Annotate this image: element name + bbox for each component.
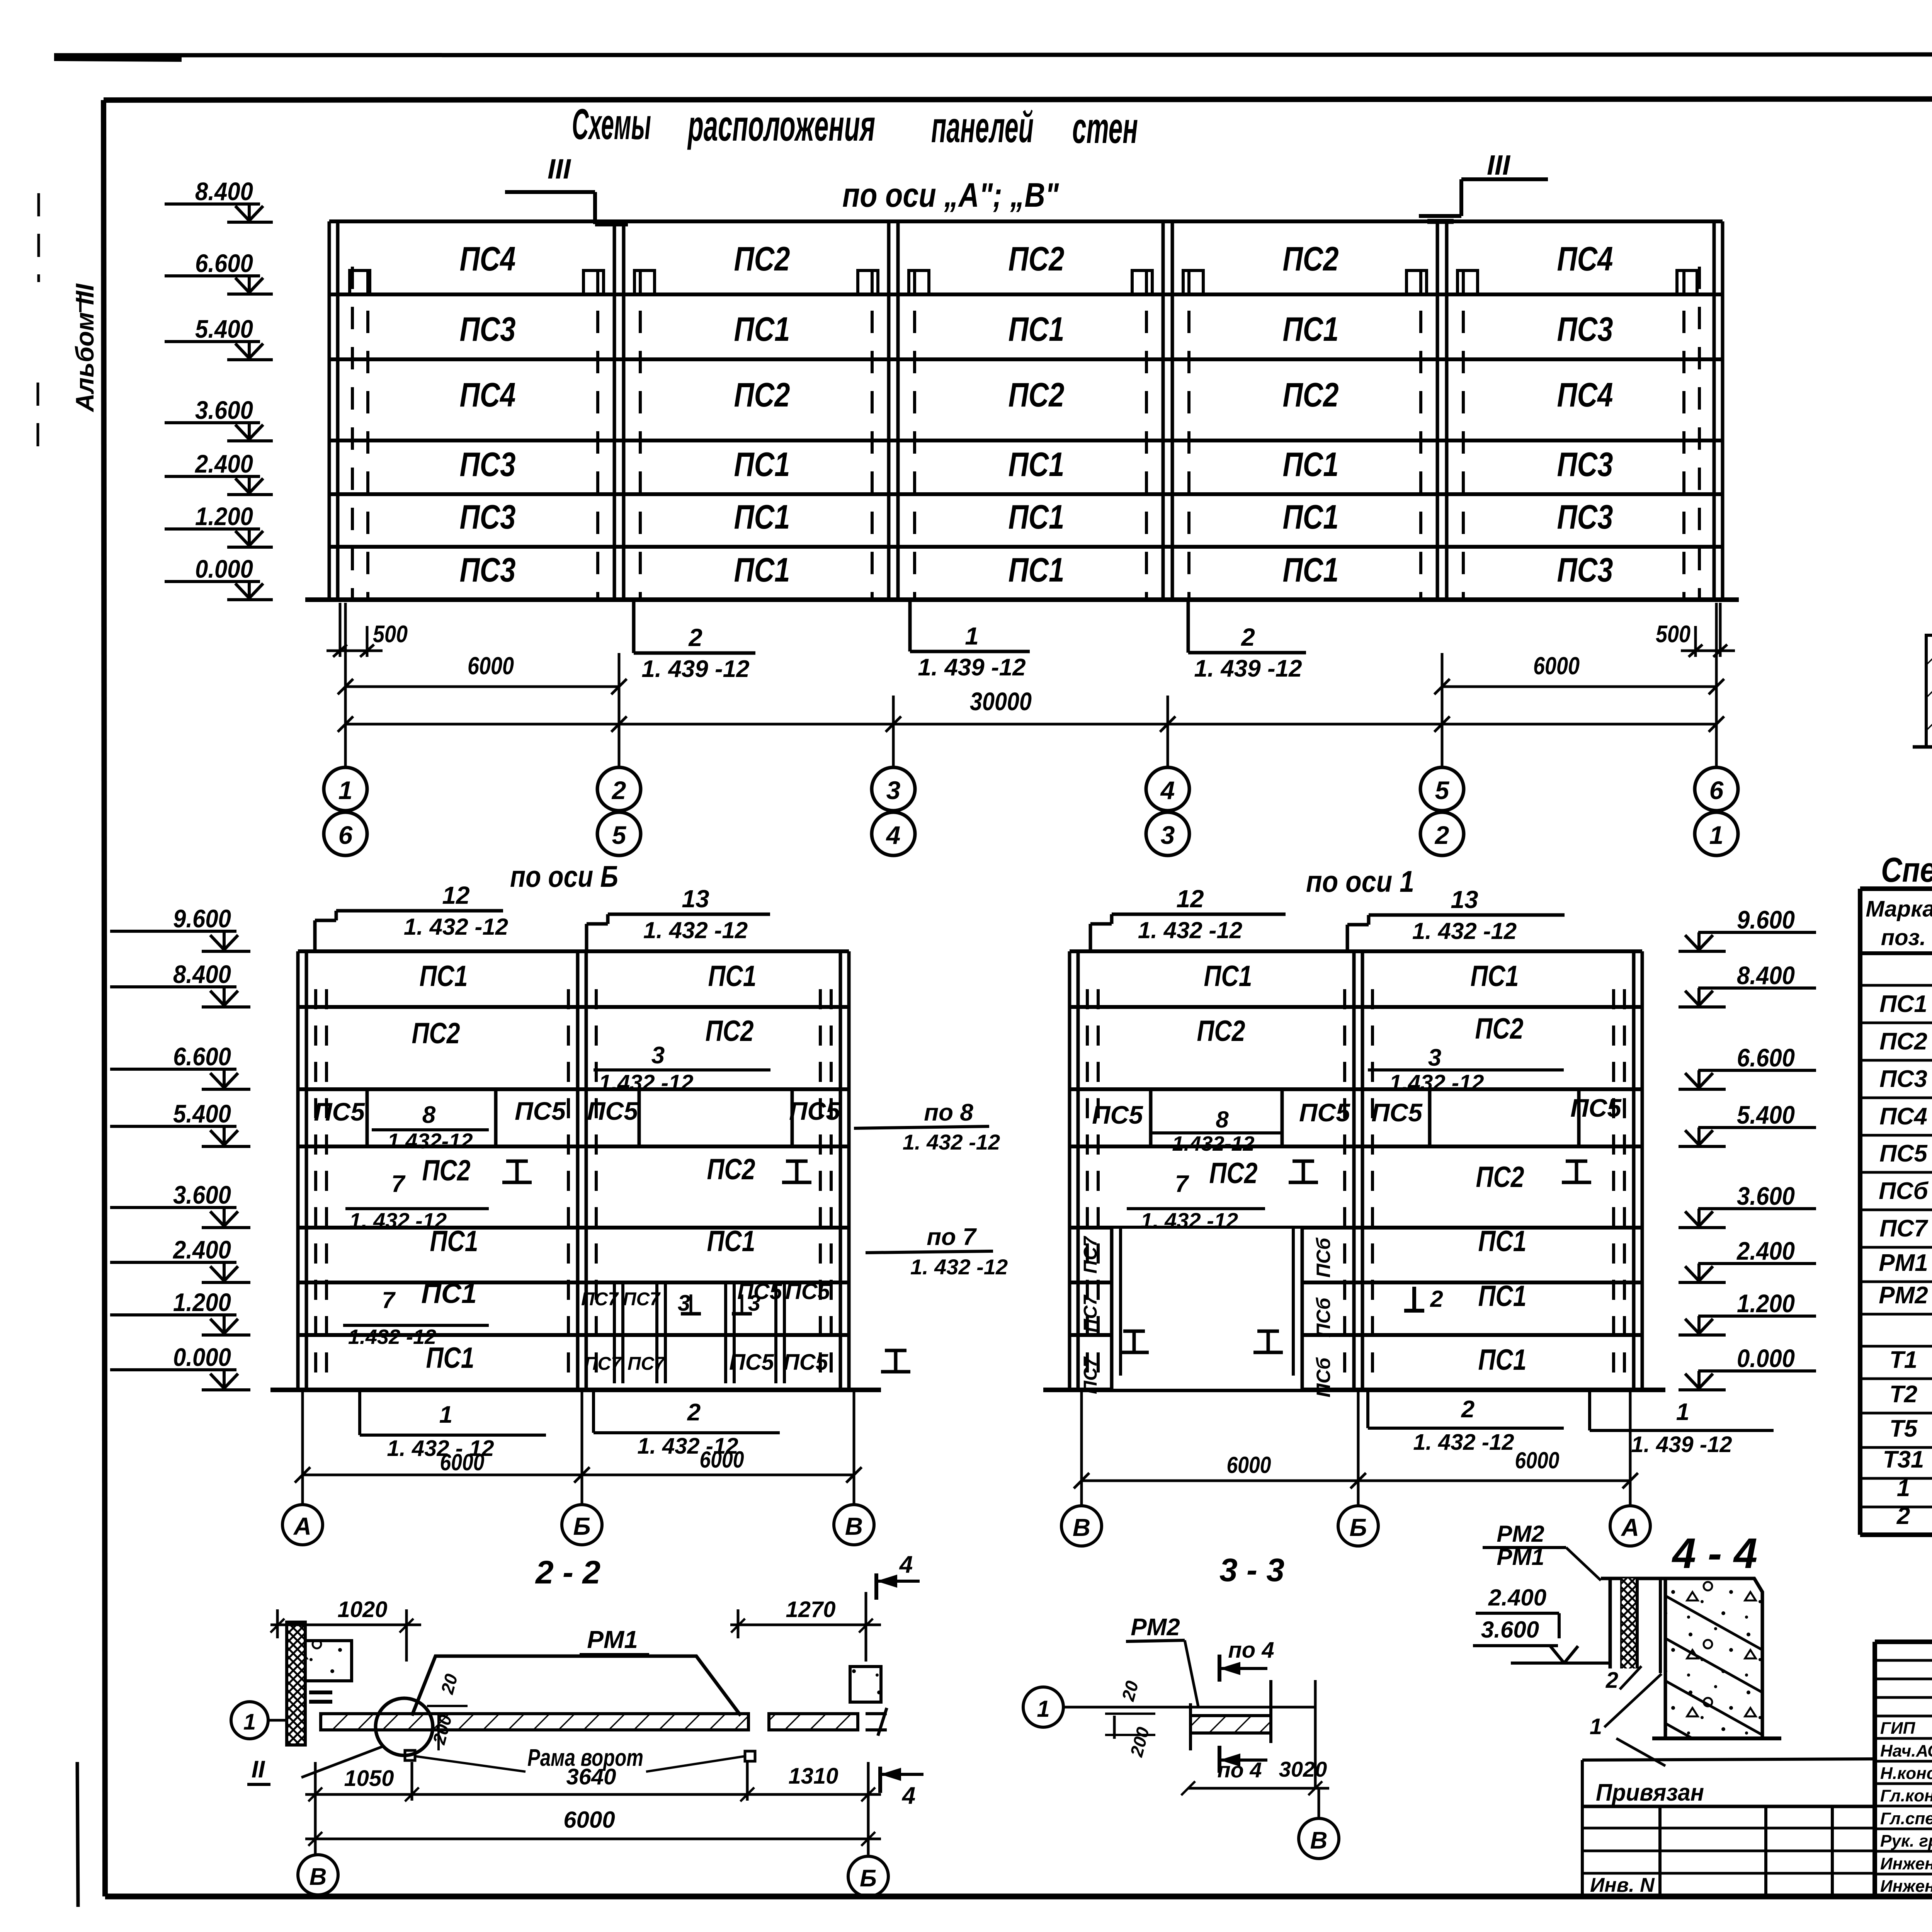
svg-text:2 - 2: 2 - 2 (535, 1554, 600, 1590)
svg-text:Б: Б (573, 1512, 590, 1540)
svg-text:1.200: 1.200 (1737, 1289, 1795, 1318)
svg-text:ПС5: ПС5 (1299, 1098, 1350, 1127)
svg-text:500: 500 (1656, 621, 1690, 648)
svg-text:3 - 3: 3 - 3 (1219, 1552, 1284, 1588)
svg-text:8: 8 (422, 1102, 436, 1128)
svg-text:6000: 6000 (468, 652, 514, 680)
svg-text:А: А (1621, 1514, 1639, 1541)
svg-text:3020: 3020 (1279, 1757, 1327, 1781)
svg-text:ПС1: ПС1 (1009, 551, 1065, 589)
svg-text:ПС2: ПС2 (1475, 1012, 1524, 1045)
svg-text:Альбом III: Альбом III (70, 283, 99, 413)
svg-text:ПС3: ПС3 (1557, 310, 1613, 348)
svg-text:3640: 3640 (566, 1764, 616, 1789)
svg-text:1: 1 (1897, 1475, 1910, 1502)
svg-text:500: 500 (373, 621, 408, 648)
svg-text:5: 5 (612, 821, 627, 849)
svg-text:Гл.констр: Гл.констр (1880, 1786, 1932, 1805)
svg-text:6.600: 6.600 (1737, 1043, 1795, 1072)
svg-text:ПС3: ПС3 (460, 445, 516, 483)
svg-text:ПС4: ПС4 (460, 376, 516, 414)
svg-text:3.600: 3.600 (1737, 1182, 1795, 1210)
svg-text:5: 5 (1435, 776, 1450, 804)
svg-text:В: В (310, 1864, 327, 1890)
svg-text:ПС1: ПС1 (421, 1278, 477, 1309)
svg-text:ПС2: ПС2 (1283, 240, 1339, 278)
svg-text:3: 3 (678, 1291, 690, 1316)
svg-text:ПС1: ПС1 (1471, 960, 1519, 993)
svg-text:2: 2 (1430, 1286, 1443, 1312)
svg-text:4: 4 (901, 1782, 915, 1809)
svg-text:1.200: 1.200 (195, 502, 253, 531)
svg-text:ПС1: ПС1 (1879, 991, 1927, 1017)
svg-text:ПС1: ПС1 (1478, 1280, 1527, 1313)
svg-text:Т2: Т2 (1889, 1381, 1917, 1408)
svg-text:2.400: 2.400 (194, 449, 253, 478)
svg-text:В: В (1073, 1514, 1090, 1541)
svg-text:по 4: по 4 (1228, 1638, 1274, 1663)
svg-text:5.400: 5.400 (173, 1099, 231, 1128)
svg-text:ПС2: ПС2 (1879, 1028, 1927, 1055)
svg-text:ПСб: ПСб (1313, 1357, 1334, 1397)
svg-text:ПС5: ПС5 (515, 1097, 566, 1125)
svg-text:6000: 6000 (1533, 652, 1580, 680)
svg-text:2.400: 2.400 (172, 1235, 231, 1264)
svg-text:ПС4: ПС4 (1879, 1103, 1927, 1130)
svg-text:30000: 30000 (970, 687, 1032, 716)
svg-text:ПС1: ПС1 (1478, 1344, 1527, 1376)
svg-text:1: 1 (243, 1709, 256, 1735)
svg-text:1: 1 (965, 622, 979, 650)
svg-text:1270: 1270 (786, 1597, 835, 1622)
svg-text:ПС2: ПС2 (412, 1017, 460, 1050)
svg-text:1: 1 (1590, 1714, 1602, 1739)
svg-text:1.432 -12: 1.432 -12 (1389, 1070, 1484, 1095)
svg-text:ГИП: ГИП (1880, 1719, 1916, 1738)
svg-text:РМ2: РМ2 (1131, 1614, 1180, 1641)
svg-text:ПС1: ПС1 (1478, 1225, 1527, 1258)
svg-text:ПС1: ПС1 (1009, 445, 1065, 483)
svg-text:1310: 1310 (788, 1764, 838, 1789)
svg-text:ПС7: ПС7 (623, 1289, 661, 1310)
svg-text:ПС7: ПС7 (584, 1354, 622, 1374)
svg-text:III: III (548, 154, 571, 185)
svg-text:ПС5: ПС5 (785, 1279, 830, 1304)
svg-text:Н.констр.: Н.констр. (1880, 1764, 1932, 1783)
svg-text:ПС3: ПС3 (460, 551, 516, 589)
svg-text:8.400: 8.400 (173, 960, 231, 988)
svg-text:1. 432 -12: 1. 432 -12 (910, 1255, 1008, 1279)
svg-text:ПС7: ПС7 (1080, 1236, 1101, 1274)
svg-text:ПС2: ПС2 (1283, 376, 1339, 414)
svg-text:2.400: 2.400 (1736, 1236, 1795, 1265)
svg-text:ПС4: ПС4 (1557, 240, 1613, 278)
svg-text:РМ2: РМ2 (1879, 1282, 1928, 1309)
svg-text:ПСб: ПСб (1879, 1178, 1929, 1204)
svg-text:ПС7: ПС7 (1080, 1356, 1101, 1394)
svg-text:по оси 1: по оси 1 (1306, 864, 1414, 898)
svg-text:ПС3: ПС3 (460, 498, 516, 536)
svg-text:Нач.АСО: Нач.АСО (1880, 1742, 1932, 1760)
svg-text:2: 2 (1605, 1668, 1618, 1693)
svg-text:9.600: 9.600 (1737, 905, 1795, 934)
svg-text:ПС2: ПС2 (422, 1154, 471, 1187)
svg-text:ПС1: ПС1 (1009, 310, 1065, 348)
svg-text:ПС1: ПС1 (426, 1342, 474, 1374)
svg-text:ПС3: ПС3 (460, 310, 516, 348)
svg-text:РМ1: РМ1 (1879, 1250, 1928, 1276)
svg-text:2: 2 (687, 1399, 701, 1426)
svg-text:1050: 1050 (344, 1766, 394, 1791)
svg-text:ПС2: ПС2 (1009, 240, 1065, 278)
svg-text:8.400: 8.400 (1737, 961, 1795, 990)
svg-text:1020: 1020 (337, 1597, 387, 1622)
svg-text:ПС1: ПС1 (1283, 445, 1339, 483)
svg-text:ПСб: ПСб (1313, 1237, 1334, 1277)
svg-text:12: 12 (1176, 885, 1204, 913)
svg-text:1. 432 -12: 1. 432 -12 (1413, 1430, 1514, 1455)
svg-text:2: 2 (1434, 821, 1449, 849)
svg-text:8: 8 (1216, 1107, 1229, 1133)
svg-text:ПС5: ПС5 (587, 1097, 638, 1125)
svg-text:ПС1: ПС1 (420, 960, 468, 993)
svg-text:Рук. гр.: Рук. гр. (1880, 1832, 1932, 1850)
svg-text:ПС4: ПС4 (1557, 376, 1613, 414)
svg-text:6000: 6000 (1227, 1452, 1271, 1478)
svg-text:Т1: Т1 (1889, 1347, 1917, 1373)
svg-text:1. 432 -12: 1. 432 -12 (1412, 918, 1517, 944)
svg-text:по 8: по 8 (924, 1099, 973, 1126)
svg-text:1.432 -12: 1.432 -12 (599, 1070, 693, 1095)
svg-text:А: А (293, 1512, 311, 1540)
svg-text:13: 13 (682, 885, 709, 913)
svg-text:ПС3: ПС3 (1557, 551, 1613, 589)
svg-text:0.000: 0.000 (195, 554, 253, 583)
svg-text:Т5: Т5 (1889, 1415, 1918, 1442)
svg-text:2: 2 (611, 776, 626, 804)
svg-text:0.000: 0.000 (1737, 1344, 1795, 1372)
svg-text:2: 2 (688, 624, 702, 651)
svg-text:Инженер: Инженер (1880, 1854, 1932, 1873)
svg-text:6000: 6000 (700, 1447, 744, 1473)
svg-text:1. 432 -12: 1. 432 -12 (643, 917, 748, 943)
svg-text:3.600: 3.600 (173, 1180, 231, 1209)
svg-text:1.432-12: 1.432-12 (387, 1129, 473, 1153)
svg-text:1. 439 -12: 1. 439 -12 (918, 654, 1026, 681)
svg-text:ПС1: ПС1 (1283, 551, 1339, 589)
svg-text:Б: Б (860, 1865, 877, 1892)
svg-text:В: В (1310, 1827, 1328, 1854)
svg-text:ПС1: ПС1 (734, 551, 790, 589)
svg-text:2: 2 (1461, 1396, 1475, 1423)
svg-text:ПС5: ПС5 (1879, 1140, 1928, 1167)
svg-text:7: 7 (1175, 1171, 1189, 1197)
svg-text:2: 2 (1896, 1503, 1910, 1529)
svg-text:3.600: 3.600 (195, 396, 253, 424)
svg-text:ПС2: ПС2 (1197, 1015, 1245, 1048)
svg-text:Схемы: Схемы (572, 100, 651, 148)
svg-text:3: 3 (1428, 1044, 1441, 1071)
svg-text:РМ2: РМ2 (1497, 1521, 1544, 1547)
svg-text:по оси Б: по оси Б (510, 859, 618, 893)
svg-text:ПС5: ПС5 (783, 1350, 828, 1375)
svg-text:2.400: 2.400 (1488, 1585, 1546, 1611)
svg-text:1: 1 (338, 776, 353, 804)
svg-text:3: 3 (1161, 821, 1175, 849)
svg-text:ПС5: ПС5 (1371, 1098, 1423, 1127)
svg-text:ПС1: ПС1 (734, 445, 790, 483)
svg-text:В: В (845, 1512, 863, 1540)
svg-text:1.432 -12: 1.432 -12 (348, 1325, 436, 1349)
svg-text:4 - 4: 4 - 4 (1672, 1530, 1757, 1577)
svg-text:5.400: 5.400 (195, 315, 253, 343)
svg-text:Привязан: Привязан (1596, 1779, 1704, 1806)
svg-text:ПС2: ПС2 (734, 376, 790, 414)
svg-text:1.432-12: 1.432-12 (1172, 1132, 1254, 1155)
svg-text:1. 439 -12: 1. 439 -12 (1194, 655, 1302, 682)
svg-text:ПС3: ПС3 (1879, 1066, 1927, 1092)
svg-text:II: II (252, 1756, 265, 1783)
svg-text:9.600: 9.600 (173, 904, 231, 933)
svg-text:6.600: 6.600 (173, 1042, 231, 1071)
svg-text:Б: Б (1349, 1514, 1367, 1541)
svg-text:ПС2: ПС2 (706, 1015, 754, 1048)
svg-text:по 4: по 4 (1217, 1758, 1262, 1782)
svg-text:ПС2: ПС2 (1476, 1161, 1524, 1194)
svg-text:панелей: панелей (931, 103, 1034, 151)
svg-text:3: 3 (886, 776, 901, 804)
svg-text:ПС5: ПС5 (737, 1279, 782, 1304)
svg-text:6: 6 (1709, 776, 1724, 804)
svg-text:ПС2: ПС2 (1209, 1157, 1258, 1190)
svg-text:ПС5: ПС5 (1570, 1094, 1622, 1122)
svg-text:1. 439 -12: 1. 439 -12 (641, 656, 749, 682)
svg-text:1.200: 1.200 (173, 1288, 231, 1316)
svg-text:ПС1: ПС1 (734, 498, 790, 536)
svg-text:5.400: 5.400 (1737, 1100, 1795, 1129)
svg-text:7: 7 (382, 1287, 396, 1313)
svg-text:1. 432 -12: 1. 432 -12 (903, 1130, 1000, 1154)
svg-text:Марка,: Марка, (1866, 896, 1932, 922)
svg-text:по оси „А"; „В": по оси „А"; „В" (842, 176, 1059, 214)
svg-text:6: 6 (338, 821, 353, 849)
svg-text:1. 432 -12: 1. 432 -12 (404, 914, 508, 940)
svg-text:ПС1: ПС1 (1009, 498, 1065, 536)
svg-text:ПС7: ПС7 (581, 1289, 619, 1310)
svg-text:ПС1: ПС1 (708, 960, 757, 993)
svg-text:7: 7 (391, 1171, 406, 1197)
svg-text:III: III (1487, 150, 1511, 181)
svg-text:1. 432 -12: 1. 432 -12 (1138, 917, 1242, 943)
svg-text:Т31: Т31 (1883, 1446, 1924, 1473)
svg-text:расположения: расположения (687, 102, 875, 150)
svg-text:3: 3 (651, 1042, 665, 1069)
svg-text:1. 439 -12: 1. 439 -12 (1631, 1432, 1732, 1457)
svg-text:6000: 6000 (563, 1807, 615, 1833)
svg-text:ПС5: ПС5 (729, 1350, 774, 1375)
svg-text:ПСб: ПСб (1313, 1297, 1334, 1337)
svg-text:1. 432 -12: 1. 432 -12 (1141, 1208, 1238, 1233)
svg-text:Инженер: Инженер (1880, 1877, 1932, 1896)
svg-text:6000: 6000 (440, 1449, 485, 1475)
svg-text:1: 1 (1037, 1696, 1049, 1722)
svg-text:ПС1: ПС1 (734, 310, 790, 348)
svg-text:Инв. N: Инв. N (1590, 1874, 1655, 1896)
svg-text:поз.: поз. (1881, 925, 1926, 950)
svg-text:Гл.спец.: Гл.спец. (1880, 1809, 1932, 1828)
svg-text:4: 4 (899, 1551, 913, 1578)
svg-text:ПС1: ПС1 (1204, 960, 1252, 993)
svg-text:8.400: 8.400 (195, 177, 253, 206)
svg-text:4: 4 (886, 821, 901, 849)
svg-text:стен: стен (1072, 104, 1138, 152)
svg-text:ПС7: ПС7 (1080, 1294, 1101, 1332)
svg-text:ПС5: ПС5 (789, 1097, 840, 1125)
svg-text:ПС2: ПС2 (707, 1153, 755, 1186)
svg-text:Спецификация к схемам распо: Спецификация к схемам расположения панел… (1881, 851, 1932, 889)
svg-text:ПС4: ПС4 (460, 240, 516, 278)
svg-text:13: 13 (1451, 886, 1478, 913)
svg-text:3.600: 3.600 (1481, 1617, 1539, 1643)
svg-text:ПС2: ПС2 (734, 240, 790, 278)
svg-text:ПС1: ПС1 (707, 1225, 755, 1258)
svg-text:ПС1: ПС1 (1283, 498, 1339, 536)
svg-text:4: 4 (1160, 776, 1175, 804)
svg-text:по 7: по 7 (927, 1224, 977, 1250)
svg-text:ПС5: ПС5 (1092, 1100, 1143, 1129)
svg-text:6.600: 6.600 (195, 249, 253, 277)
svg-text:12: 12 (442, 881, 469, 909)
svg-text:1: 1 (1709, 821, 1724, 849)
svg-text:6000: 6000 (1515, 1447, 1560, 1473)
svg-text:РМ1: РМ1 (587, 1626, 638, 1653)
svg-text:ПС7: ПС7 (1879, 1215, 1928, 1242)
svg-text:ПС5: ПС5 (314, 1097, 365, 1126)
svg-text:ПС7: ПС7 (628, 1354, 665, 1374)
svg-text:ПС3: ПС3 (1557, 445, 1613, 483)
svg-text:1: 1 (439, 1401, 452, 1428)
svg-text:ПС1: ПС1 (1283, 310, 1339, 348)
svg-text:ПС3: ПС3 (1557, 498, 1613, 536)
svg-text:ПС1: ПС1 (430, 1225, 478, 1258)
svg-text:ПС2: ПС2 (1009, 376, 1065, 414)
svg-text:0.000: 0.000 (173, 1343, 231, 1371)
svg-text:1: 1 (1676, 1399, 1689, 1425)
svg-text:2: 2 (1241, 623, 1255, 651)
